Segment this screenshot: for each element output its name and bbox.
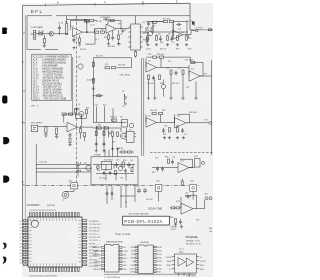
svg-text:5 IN+: 5 IN+	[123, 258, 127, 260]
three supply lines	[36, 164, 91, 172]
cap C14	[69, 133, 72, 139]
dual op-amp box	[172, 248, 200, 273]
feedback IC8	[180, 159, 192, 167]
svg-text:D1: D1	[122, 91, 124, 93]
resistor R52	[131, 168, 133, 172]
DIP2 pins	[135, 246, 156, 272]
wires verticals row2	[149, 75, 197, 97]
bottom-right caption rows	[104, 276, 196, 279]
wire row3 mid	[93, 121, 126, 123]
wire out right	[190, 29, 213, 31]
svg-text:R33 10K: R33 10K	[110, 117, 118, 119]
FET Q1	[49, 32, 54, 37]
svg-text:IC6: IC6	[120, 117, 123, 119]
svg-text:CP1: CP1	[131, 250, 135, 252]
svg-text:OUT A: OUT A	[166, 256, 172, 259]
cap C7	[176, 23, 182, 26]
op-amp IC1a	[73, 28, 83, 37]
wire top connect	[96, 126, 126, 136]
svg-text:R28: R28	[160, 83, 163, 85]
svg-text:28: 28	[20, 259, 22, 261]
stubs left	[172, 257, 175, 269]
svg-text:VR1 LEVEL: VR1 LEVEL	[120, 75, 132, 77]
resistor R26	[170, 70, 172, 74]
svg-text:1st FET AMP: 1st FET AMP	[31, 26, 44, 29]
cap C6	[146, 36, 149, 41]
zone tick C	[142, 3, 144, 6]
PCB label box	[123, 212, 178, 231]
coil L1	[62, 191, 69, 198]
resistor R18	[167, 36, 169, 40]
jack pin	[33, 128, 36, 130]
resistor on bus93	[92, 62, 94, 67]
resistor R3	[66, 24, 68, 35]
resistor R7	[95, 31, 99, 33]
dual op labels left	[166, 256, 172, 271]
svg-text:V+: V+	[200, 257, 202, 259]
svg-text:16 NC: 16 NC	[157, 247, 163, 249]
svg-text:C45: C45	[136, 186, 139, 188]
input resistor Rb	[176, 207, 179, 209]
svg-text:R43: R43	[112, 141, 115, 143]
svg-text:VGG: VGG	[130, 265, 135, 267]
resistor R61	[103, 131, 105, 135]
svg-text:6 P6 CP2 CLK: 6 P6 CP2 CLK	[89, 237, 101, 239]
svg-text:(QFP-48): (QFP-48)	[47, 205, 55, 207]
IC2 pins right	[140, 27, 143, 47]
svg-text:C11: C11	[168, 61, 171, 63]
DIP2 labels left	[130, 247, 135, 274]
op-amp IC9	[181, 203, 193, 214]
cap C16	[181, 128, 184, 133]
svg-text:R29 4.7K: R29 4.7K	[172, 83, 180, 85]
svg-text:C21: C21	[172, 157, 175, 159]
svg-text:6 IN-: 6 IN-	[123, 254, 127, 256]
wire Q2 stubs	[148, 24, 189, 38]
cap C13	[75, 108, 81, 111]
wire q6	[76, 113, 87, 119]
input jack	[33, 30, 35, 39]
svg-text:R10: R10	[104, 37, 107, 39]
ground G5	[145, 40, 148, 43]
resistor R12	[146, 28, 148, 32]
capacitor C1	[58, 25, 61, 32]
bus vertical 1	[141, 58, 143, 156]
svg-text:18: 18	[20, 227, 22, 229]
terminal T1	[196, 29, 199, 32]
resistor R20	[186, 36, 188, 40]
QFP pins right	[82, 220, 86, 266]
hook mark 2	[3, 257, 6, 263]
svg-text:14 NC: 14 NC	[157, 254, 163, 256]
pin1 circle	[31, 220, 38, 227]
IC2 pins left	[128, 27, 131, 47]
vertical pair	[96, 126, 104, 150]
svg-text:C50: C50	[209, 231, 212, 233]
resistor R16	[147, 36, 149, 40]
svg-text:uPD4558C: uPD4558C	[140, 242, 150, 244]
svg-text:SUB IN+: SUB IN+	[94, 262, 101, 264]
svg-text:R47: R47	[152, 172, 155, 174]
frame top-right corner drop	[189, 3, 191, 30]
svg-text:1 P1 MUTE —: 1 P1 MUTE —	[89, 221, 101, 223]
wire between	[161, 67, 212, 76]
vertical drop	[35, 144, 37, 186]
resistor R28	[45, 127, 47, 133]
bottom dashed line with connector squares	[26, 183, 199, 202]
svg-text:OUT B: OUT B	[200, 261, 206, 263]
svg-text:R11: R11	[118, 43, 121, 45]
svg-text:R6 47K: R6 47K	[80, 49, 87, 51]
resistor VR2	[112, 67, 116, 69]
scattered value labels layer	[47, 21, 209, 221]
svg-text:DELAY TIME: DELAY TIME	[149, 207, 163, 210]
wire inside power	[93, 165, 135, 172]
scan grain	[22, 3, 213, 277]
svg-text:IC7: IC7	[129, 129, 132, 131]
resistor R41	[122, 162, 124, 167]
ground G12	[68, 143, 71, 147]
resistor R32	[69, 139, 71, 143]
op-amp IC5a	[67, 122, 77, 131]
parts table rows	[33, 56, 69, 101]
resistor R27	[182, 70, 184, 74]
wire op2 out	[121, 28, 130, 30]
svg-text:R22: R22	[105, 64, 108, 66]
svg-text:MAIN IN-: MAIN IN-	[94, 250, 102, 253]
resistor R33	[152, 112, 156, 114]
op-amp IC1b	[106, 24, 116, 33]
cap C22	[185, 195, 191, 198]
resistor R22	[160, 56, 164, 58]
svg-text:R18: R18	[160, 42, 163, 44]
wire input	[31, 33, 52, 35]
svg-text:IC8 MN3207: IC8 MN3207	[27, 205, 41, 207]
resistor above sq3	[181, 181, 183, 185]
grounds row3	[163, 136, 166, 140]
resistor R40	[117, 132, 119, 136]
svg-text:IC3: IC3	[181, 32, 184, 34]
IC2 box	[131, 24, 140, 50]
svg-text:IN A-: IN A-	[167, 260, 171, 263]
resistor R46	[112, 119, 117, 121]
svg-text:Q2: Q2	[78, 104, 80, 106]
resistor R36	[177, 128, 179, 132]
svg-text:29: 29	[20, 263, 22, 265]
svg-text:8 V+: 8 V+	[123, 247, 127, 249]
left hang parts	[80, 129, 82, 133]
svg-text:MUTE: MUTE	[118, 148, 124, 150]
wire r21 row	[147, 57, 191, 61]
svg-text:R36: R36	[162, 110, 165, 112]
scan blotch	[22, 3, 213, 277]
resistor R29	[56, 128, 58, 134]
mid band 1: transistor + wires	[31, 17, 144, 185]
svg-text:C20: C20	[155, 157, 158, 159]
svg-text:C1 10: C1 10	[58, 23, 63, 25]
wire out row3	[82, 126, 94, 128]
svg-text:IC10: IC10	[180, 160, 184, 162]
muting / mid-center circuit y125-150	[80, 126, 137, 157]
svg-text:Q4: Q4	[124, 132, 126, 134]
grounds row2	[147, 97, 150, 101]
cap C9	[170, 36, 173, 41]
wire IC2 down	[135, 50, 137, 58]
cap C8	[159, 36, 162, 41]
caps pair 1	[156, 167, 159, 172]
svg-text:D2: D2	[98, 170, 100, 172]
row 3 right: op-amps near x146-216 y108-145	[146, 112, 212, 139]
svg-text:R19: R19	[176, 49, 179, 51]
svg-text:22: 22	[20, 240, 22, 242]
resistor below IC2	[135, 52, 137, 57]
branch resistor	[97, 95, 101, 97]
resistor R19	[177, 36, 179, 40]
svg-text:CP2: CP2	[131, 254, 135, 256]
bus vertical 2	[143, 58, 145, 156]
cap C4	[103, 18, 109, 21]
coil L1 inner	[64, 193, 67, 196]
svg-text:26: 26	[20, 253, 22, 255]
svg-text:R26: R26	[166, 68, 169, 70]
wires power	[96, 174, 134, 181]
svg-text:P OUT: P OUT	[196, 27, 203, 29]
svg-text:CN1: CN1	[194, 156, 198, 158]
Top View section	[105, 232, 131, 272]
zone tick A	[45, 4, 47, 7]
svg-text:IC5: IC5	[148, 115, 151, 117]
resistor R8	[101, 31, 105, 33]
feedback IC9	[181, 195, 197, 209]
svg-text:1/2W carbon: 1/2W carbon	[186, 276, 196, 278]
svg-text:NJM4558D/4558DD: NJM4558D/4558DD	[106, 242, 124, 244]
QFP pins top	[23, 213, 87, 272]
DIP2 body	[138, 245, 153, 274]
feedback IC3a	[173, 22, 187, 35]
svg-text:2SK30A : S G D: 2SK30A : S G D	[186, 239, 200, 242]
svg-text:16: 16	[20, 221, 22, 223]
resistor R14	[163, 20, 167, 22]
transistor Q3	[78, 64, 83, 69]
mid band: op-amp row 2 (y~60-105)	[146, 56, 212, 100]
resistor R39	[112, 132, 114, 136]
QFP pins left	[23, 220, 27, 266]
cap C19	[76, 162, 79, 167]
svg-text:R14 R15: R14 R15	[163, 18, 170, 20]
svg-text:IN A+: IN A+	[167, 264, 171, 267]
grounds row top amps	[146, 43, 149, 46]
svg-text:C31: C31	[95, 105, 98, 107]
op-amp IC6a	[146, 118, 157, 128]
svg-text:C5: C5	[120, 34, 122, 36]
circle Q7	[129, 123, 134, 128]
svg-text:C41: C41	[130, 160, 133, 162]
resistor R45	[75, 109, 77, 113]
resistor R15	[169, 20, 173, 22]
op-amp IC8	[178, 163, 189, 173]
svg-text:C22: C22	[185, 193, 188, 195]
cap C5	[111, 36, 114, 41]
ground G3	[107, 39, 110, 46]
wire to C1	[54, 32, 66, 34]
svg-text:R46: R46	[165, 157, 168, 159]
svg-text:R1 1M: R1 1M	[38, 31, 44, 33]
svg-text:12 NC: 12 NC	[157, 261, 163, 263]
wire mid bus	[85, 32, 95, 44]
wire in2	[38, 126, 67, 128]
resistor R17	[156, 36, 158, 40]
svg-text:R49: R49	[196, 220, 199, 222]
wire into IC9	[170, 207, 182, 209]
cap C26	[103, 142, 106, 147]
coil L1 wire	[66, 189, 75, 192]
resistor R51	[115, 171, 117, 175]
ground G1	[43, 43, 47, 48]
svg-text:C14: C14	[186, 87, 189, 89]
svg-text:5 P5 CP1 ——: 5 P5 CP1 ——	[89, 234, 101, 236]
svg-text:POWER: POWER	[94, 155, 101, 157]
punch mark 3	[3, 137, 9, 144]
svg-text:R20: R20	[188, 49, 191, 51]
svg-text:Q5: Q5	[84, 163, 86, 165]
wire down	[92, 58, 94, 123]
terminal T3	[205, 197, 208, 200]
wire mid row3	[161, 121, 210, 123]
branch right	[93, 95, 103, 97]
wire r2a	[147, 21, 164, 23]
delay sub block right y150-185	[150, 153, 213, 173]
svg-text:C13 047: C13 047	[147, 83, 154, 85]
resistor R2a	[153, 21, 157, 23]
svg-text:Top View: Top View	[115, 232, 131, 236]
dash-dot separator	[26, 185, 199, 187]
transistor Q9	[161, 84, 165, 88]
wire R2	[43, 35, 45, 39]
QFP left labels	[20, 221, 22, 265]
caps row below squares	[106, 179, 194, 211]
top amp row	[66, 16, 213, 97]
cap C15	[162, 128, 165, 133]
svg-text:3 P3 OSC IN —: 3 P3 OSC IN —	[89, 227, 102, 229]
svg-text:R31: R31	[86, 107, 89, 109]
resistor R25	[191, 61, 195, 63]
resistor R34	[159, 112, 163, 114]
svg-text:C43 100: C43 100	[99, 177, 106, 179]
DIP1 pins right	[119, 247, 122, 249]
frame left inner line	[24, 15, 26, 264]
EXT INPUT + row 3	[31, 108, 93, 147]
terminal T4	[209, 197, 212, 200]
svg-text:R15 47K: R15 47K	[186, 21, 194, 23]
box IC small	[122, 120, 128, 128]
wire IC2 to op3	[143, 22, 188, 33]
svg-text:IC 1-7: IC 1-7	[179, 248, 184, 250]
vertical taps	[78, 162, 81, 176]
wire r4r5	[87, 20, 97, 22]
DIP1 labels right	[123, 247, 129, 271]
svg-text:VR1 50K: VR1 50K	[118, 65, 126, 67]
svg-text:IC11 78L05: IC11 78L05	[104, 159, 113, 161]
svg-text:4 P4 VDD 5V: 4 P4 VDD 5V	[89, 231, 100, 233]
feedback IC1b	[108, 21, 121, 29]
resistor R21	[153, 56, 157, 58]
svg-text:7 OUT: 7 OUT	[123, 251, 129, 253]
cap C25	[95, 142, 98, 147]
svg-text:R21 47K: R21 47K	[96, 56, 104, 58]
cap C2a	[147, 22, 150, 27]
junction dots	[152, 31, 153, 32]
svg-text:IC10: IC10	[176, 201, 180, 203]
svg-text:CN2: CN2	[156, 181, 160, 183]
svg-text:R17 1K: R17 1K	[160, 49, 167, 51]
svg-text:C4 R9 100K: C4 R9 100K	[100, 17, 111, 19]
DIP2	[138, 242, 153, 274]
wire main top	[67, 16, 87, 24]
square2 inner	[158, 187, 160, 189]
wire out to terminal	[187, 31, 195, 35]
svg-text:EXT INPUT: EXT INPUT	[31, 123, 43, 125]
svg-text:SUB IN-: SUB IN-	[94, 265, 101, 267]
svg-text:IC5: IC5	[177, 115, 180, 117]
svg-text:L1: L1	[62, 200, 64, 202]
svg-text:C9: C9	[172, 42, 174, 44]
QFP right labels	[89, 221, 102, 268]
svg-text:R23: R23	[148, 54, 151, 56]
svg-text:CN3: CN3	[190, 181, 194, 183]
svg-text:R50: R50	[123, 160, 126, 162]
junction dots	[125, 201, 126, 202]
svg-text:19: 19	[20, 231, 22, 233]
svg-text:( ) : DFL-0102A only: ( ) : DFL-0102A only	[104, 276, 120, 279]
bus into power	[105, 150, 109, 157]
svg-text:IC1: IC1	[71, 26, 74, 28]
wire table right	[72, 57, 74, 114]
QFP body	[28, 217, 82, 267]
DIP1 pins left	[102, 247, 122, 270]
svg-text:7 P7 OUT ——: 7 P7 OUT ——	[89, 240, 101, 242]
wire top right amp	[156, 21, 183, 23]
wire out IC9	[197, 200, 205, 209]
FET legs	[50, 32, 52, 36]
svg-text:C17: C17	[184, 134, 187, 136]
svg-text:IC2 4558: IC2 4558	[146, 21, 153, 23]
svg-text:C46 100: C46 100	[146, 199, 153, 201]
cap C32	[124, 169, 127, 173]
dual op under stubs	[179, 273, 190, 276]
svg-text:13 NC: 13 NC	[157, 258, 163, 260]
svg-text:C40: C40	[116, 159, 119, 161]
svg-text:SUB OUT: SUB OUT	[93, 269, 102, 271]
svg-text:R52: R52	[103, 105, 106, 107]
svg-text:C: C	[104, 1, 106, 4]
punch mark 2	[2, 96, 7, 104]
IC7 box small	[127, 132, 135, 143]
svg-text:PCB-DFL-0102A: PCB-DFL-0102A	[124, 219, 163, 224]
diode D3	[109, 131, 111, 138]
bottom-right op-amp circuit	[170, 195, 213, 238]
frame left outer line	[22, 6, 24, 265]
feedback wire IC1a	[71, 20, 87, 32]
resistor R4	[84, 19, 88, 21]
svg-text:21: 21	[20, 237, 22, 239]
DIP2 labels right	[157, 247, 163, 274]
svg-text:48 47 46 45 44 43 42 41 40 39: 48 47 46 45 44 43 42 41 40 39 38 37	[30, 276, 58, 278]
parts above power block	[121, 151, 125, 153]
DIP1 body	[105, 245, 119, 273]
resistor R9	[110, 19, 114, 21]
svg-text:C5 1: C5 1	[95, 39, 99, 41]
svg-text:Q2: Q2	[158, 33, 160, 35]
